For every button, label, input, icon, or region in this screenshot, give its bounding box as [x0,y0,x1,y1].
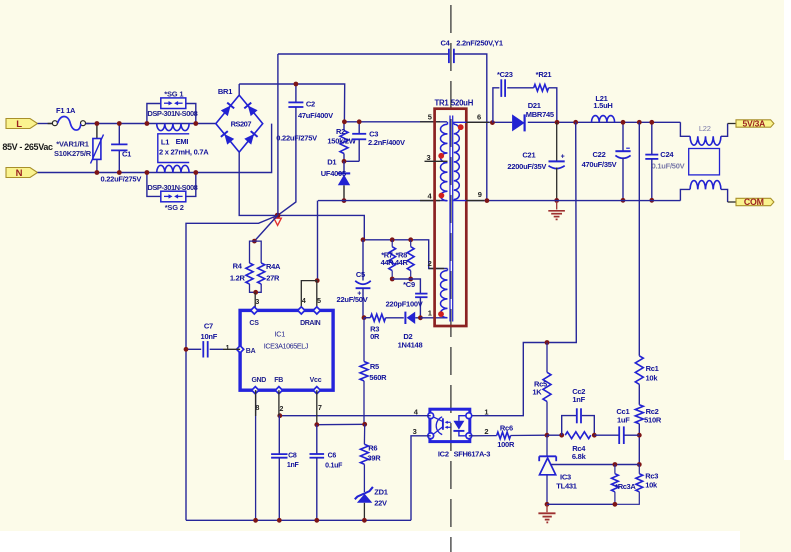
wire star diag to R4 [254,215,277,241]
svg-text:Rc3: Rc3 [645,471,658,480]
junction SG2 left [145,170,150,175]
bridge BR1 diamond [216,95,263,152]
svg-text:10nF: 10nF [201,332,218,341]
ground TL431 [538,504,555,522]
junction Rc2 Cc1 [637,433,642,438]
junction R2 top [342,119,347,124]
svg-text:*SG 2: *SG 2 [165,203,184,212]
fuse F1 [48,106,90,130]
wire N [38,124,272,173]
label BR1 [218,87,232,96]
svg-text:TL431: TL431 [556,481,577,490]
wire pin6 rail [466,121,680,123]
capacitor C4 [440,39,502,64]
svg-text:0.22uF/275V: 0.22uF/275V [276,134,317,143]
junction TL431 anode [545,502,550,507]
resistor Rc1 [635,356,658,385]
bridge diode D-a [221,103,234,116]
svg-text:*R21: *R21 [536,70,552,79]
transformer TR1 box [435,109,467,326]
svg-text:1: 1 [428,309,432,318]
svg-text:ICE3A1065ELJ: ICE3A1065ELJ [264,341,309,350]
wire rail y84 [239,84,345,122]
opto IC2 box [430,409,470,441]
wire pin1 stub [420,317,447,319]
svg-text:1K: 1K [532,388,542,397]
spark gap SG1 wiring [147,104,196,124]
svg-text:C7: C7 [204,321,213,330]
junction R2 bottom [342,159,347,164]
svg-text:IC1: IC1 [275,330,286,339]
IC2 pin circle [466,413,472,419]
transformer core [450,116,453,322]
wire Rc1-Rc2 [638,384,640,404]
resistor R6 [360,424,381,464]
svg-text:3: 3 [427,153,431,162]
junction Rc4 left [559,433,564,438]
IC2 pin circle [428,413,434,419]
capacitor C1 [100,124,141,184]
svg-text:*Rc3A: *Rc3A [615,482,636,491]
svg-text:C8: C8 [288,453,297,460]
svg-text:R2: R2 [336,127,345,136]
svg-text:+: + [561,153,565,160]
label L22 [699,124,711,133]
svg-text:FB: FB [274,377,283,384]
svg-text:C24: C24 [660,150,674,159]
junction Vcc [314,422,319,427]
svg-text:10k: 10k [645,481,658,490]
IC2 pin numbers [413,408,489,437]
svg-text:BR1: BR1 [218,87,232,96]
bridge diode D-c [221,131,234,144]
capacitor Cc2 [562,387,595,435]
wire C4 to pin9 rail [454,54,487,201]
wire gnd rail 504 [547,503,615,505]
svg-text:ZD1: ZD1 [374,487,387,496]
svg-text:C3: C3 [369,129,378,138]
svg-text:3: 3 [413,427,417,436]
svg-text:Rc1: Rc1 [646,364,659,373]
TR1 pin3 tap [425,160,448,162]
junction C5 bottom [362,315,367,320]
svg-text:GND: GND [252,377,267,384]
resistor Rc6 [497,424,547,450]
IC1 pin diamond [313,387,320,394]
svg-text:L1: L1 [161,137,169,146]
junction Rc4 right [592,433,597,438]
svg-text:6: 6 [477,113,481,122]
svg-text:COM: COM [744,197,764,207]
IC1 pin diamond [298,307,305,314]
FB pin stub [278,390,280,416]
terminal N [6,168,38,180]
resistor R4A [258,262,281,284]
svg-text:R4A: R4A [266,262,281,271]
svg-text:R6: R6 [368,443,377,452]
junction Rc2 Rc3 [637,462,642,467]
wire drain riser [317,201,319,281]
resistor R3 [364,314,386,341]
drain pin stubs [301,281,317,311]
svg-text:150k/2W: 150k/2W [327,137,356,146]
svg-text:3: 3 [255,299,259,306]
isolation boundary dashed line [450,5,452,552]
junction C22 top [621,120,626,125]
junction rail ZD1 [362,518,367,523]
label 85V - 265Vac [2,142,53,152]
wire L terminal to fuse [38,123,53,125]
spark gap SG2 [147,183,197,212]
terminal 5V/3A [736,118,774,128]
junction D2 C9 [418,315,423,320]
IC1 pin diamond [251,307,258,314]
resistor R8 [395,240,414,279]
svg-text:85V - 265Vac: 85V - 265Vac [2,142,53,152]
svg-text:5: 5 [428,113,432,122]
TR1 polarity dot pin4 [439,193,445,199]
zener ZD1 [355,464,388,520]
IC1 pin diamond [275,387,282,394]
junction R6 top [362,422,367,427]
CS pin stub [254,292,256,310]
choke L1 label box [158,134,209,163]
junction R8 bottom [408,277,413,282]
svg-text:SFH617A-3: SFH617A-3 [454,450,491,459]
capacitor C22 [582,122,631,200]
resistor Rc4 [565,432,591,461]
svg-text:1nF: 1nF [287,462,300,469]
svg-text:DRAIN: DRAIN [300,320,321,327]
junction rail C6 [314,518,319,523]
IC1 pin diamond [313,307,320,314]
diode D2 [386,312,423,350]
junction C7 left [184,347,189,352]
wire to L22 bottom [680,189,690,200]
svg-text:R4: R4 [233,261,243,270]
opto IC2 transistor [432,416,443,435]
TR1 primary winding [441,122,448,201]
resistor Rc3A [612,465,637,505]
Vcc pin stub [316,390,318,425]
IC1 pin diamond [237,346,244,353]
svg-text:1N4148: 1N4148 [398,341,423,350]
junction D1 anode [342,198,347,203]
junction C22 bottom [621,198,626,203]
TR1 polarity dot pin3 [438,153,444,159]
resistor Rc5 [532,343,551,436]
svg-text:0.1uF/50V: 0.1uF/50V [652,162,685,171]
svg-text:1nF: 1nF [572,395,585,404]
svg-text:2: 2 [280,406,284,413]
svg-text:DSP-301N-S008: DSP-301N-S008 [147,183,197,192]
svg-text:CS: CS [249,320,259,327]
capacitor C3 [352,122,405,162]
junction Rc5 riser top [573,120,578,125]
svg-text:2.2nF/250V,Y1: 2.2nF/250V,Y1 [456,39,503,48]
junction C24 bottom [649,198,654,203]
wire Rc1 riser [638,122,640,355]
svg-text:47uF/400V: 47uF/400V [298,111,333,120]
wire aux rail y239.8 [363,240,448,269]
resistor Rc3 [615,465,658,505]
spark gap SG2 wiring [147,173,196,197]
svg-text:C2: C2 [306,100,315,109]
op-amp IC1 box [240,310,333,390]
svg-text:100R: 100R [497,440,515,449]
svg-text:22uF/50V: 22uF/50V [337,295,368,304]
junction C5 top [361,237,366,242]
svg-text:560R: 560R [369,373,387,382]
junction R7 top [390,237,395,242]
IC1 pin diamond [252,387,259,394]
svg-text:C22: C22 [592,150,605,159]
choke L1 top winding [157,124,189,131]
IC1 labels [246,320,322,384]
svg-text:510R: 510R [644,415,662,424]
svg-text:F1 1A: F1 1A [56,106,76,115]
svg-text:L22: L22 [699,124,711,133]
wire Rc2 down [638,424,640,465]
svg-text:C1: C1 [122,149,131,158]
wire opto pin3 to rail [411,436,431,521]
capacitor C5 [337,240,371,318]
resistor R5 [360,318,387,425]
junction D21 cathode [555,120,560,125]
resistor R4 and R4A frame [250,241,262,292]
svg-text:4: 4 [302,298,306,305]
svg-text:R5: R5 [370,362,379,371]
svg-text:D2: D2 [403,332,412,341]
svg-text:0R: 0R [370,332,380,341]
svg-text:1uF: 1uF [617,415,630,424]
svg-text:7: 7 [318,405,322,412]
svg-text:D21: D21 [528,101,541,110]
junction C21 bottom [554,198,559,203]
wire x278 riser to star [277,54,279,215]
wire left vertical x186 [186,215,278,520]
svg-text:2200uF/35V: 2200uF/35V [507,162,546,171]
wire to L22 top [680,122,690,136]
wire R7R8 bottom to C9 [392,279,420,294]
choke L22 core [689,149,720,175]
capacitor C7 [186,321,240,357]
junction C2 top [294,82,299,87]
resistor Rc2 [635,405,662,425]
svg-text:C21: C21 [522,151,535,160]
junction C3 top [357,119,362,124]
TR1 polarity dot pin1 [438,311,444,317]
capacitor C24 [645,122,684,200]
svg-text:470uF/35V: 470uF/35V [582,160,617,169]
resistor R2 [327,122,356,162]
junction R7 bottom [390,277,395,282]
svg-text:5: 5 [317,298,321,305]
svg-text:1.2R: 1.2R [230,274,246,283]
wire bottom rail [186,519,411,521]
svg-text:0.22uF/275V: 0.22uF/275V [100,175,141,184]
bridge diode D-b [244,103,257,116]
IC2 labels [438,450,490,459]
varistor VAR1/R1 [54,124,103,173]
svg-text:9: 9 [478,190,482,199]
label RS207 [231,120,252,129]
inductor L21 [592,94,615,122]
IC2 pin circle [466,433,472,439]
junction SG2 right [193,170,198,175]
wire bridge bottom riser [239,152,277,215]
resistor R7 [381,240,396,279]
junction node B [545,340,550,345]
transformer TR1 label [435,99,474,108]
junction drain pins [315,278,320,283]
TR1 aux winding [441,269,448,318]
shunt reg IC3 TL431 [539,435,577,504]
star node [275,213,281,219]
wire drain rail y200.6 [318,200,447,202]
junction Rc3A top [613,462,618,467]
svg-text:1: 1 [484,408,488,417]
svg-text:BA: BA [246,348,256,355]
svg-text:*VAR1/R1: *VAR1/R1 [56,140,88,149]
IC2 pin circle [428,433,434,439]
svg-text:*SG 1: *SG 1 [164,90,183,99]
wire FB to opto pin4 [280,415,431,417]
capacitor C9 [386,280,428,318]
svg-text:L: L [16,119,22,130]
ground secondary [548,200,565,219]
wire star to x364 riser [278,215,365,239]
junction rail GND [253,518,258,523]
snubber C23 R21 [493,70,557,123]
IC1 pin numbers [226,298,322,413]
terminal COM [736,197,774,207]
svg-text:6.8k: 6.8k [572,452,587,461]
svg-text:2: 2 [428,259,432,268]
wire R2 C3 bottom [344,160,359,162]
svg-text:C6: C6 [328,453,337,460]
svg-text:TR1: TR1 [435,99,450,108]
junction node A [545,433,550,438]
svg-text:5V/3A: 5V/3A [742,118,765,128]
choke L1 bottom winding [157,165,189,172]
svg-text:*C9: *C9 [403,280,415,289]
svg-text:C4: C4 [440,39,450,48]
diode D21 [512,101,554,131]
TR1 pin numbers [427,113,482,318]
wire rc5 riser [469,122,577,415]
capacitor Cc1 [594,407,639,444]
svg-text:*C23: *C23 [497,70,513,79]
diode D1 [321,158,350,201]
junction snubber leg [490,120,495,125]
junction R4 bottom [253,290,258,295]
svg-text:10k: 10k [646,373,659,382]
wire fuse to bridge [86,123,216,125]
wire L22 bottom out [721,189,736,202]
svg-text:S10K275/R: S10K275/R [54,149,92,158]
wire L22 top out [721,124,736,137]
choke L22 top [690,136,721,145]
svg-text:39R: 39R [367,454,381,463]
wire bridge top riser [238,84,240,95]
capacitor C8 [271,416,299,521]
svg-text:44R: 44R [381,258,395,267]
svg-text:RS207: RS207 [231,120,252,129]
junction C1 bottom [117,170,122,175]
junction C24 top [649,120,654,125]
svg-text:1.5uH: 1.5uH [593,101,612,110]
wire TL431 ref [551,464,639,466]
capacitor C2 [276,84,333,215]
svg-text:UF4005: UF4005 [321,169,346,178]
svg-text:N: N [16,168,23,179]
bridge diode D-d [244,131,257,144]
spark gap SG1 [147,90,197,118]
resistor R4 [230,261,253,284]
terminal L [6,119,38,131]
junction C1 top [117,121,122,126]
choke L22 bottom [690,181,721,190]
star marker triangle [274,218,281,225]
junction C4 pin9 [485,198,490,203]
junction rail C8 [277,518,282,523]
wire top rail y54 [278,53,449,55]
wire pin5 rail [344,121,447,123]
TR1 secondary winding [454,122,467,200]
wire Vcc node [317,423,365,425]
junction SG1 left [145,121,150,126]
svg-text:220pF100V: 220pF100V [386,299,423,308]
capacitor C6 [310,425,344,521]
wire nodeA right [547,434,562,436]
capacitor C21 [507,122,564,200]
svg-text:Rc6: Rc6 [500,424,513,433]
junction R8 top [408,237,413,242]
junction FB [277,413,282,418]
junction varistor top [95,121,100,126]
svg-text:IC3: IC3 [560,472,571,481]
wire opto pin2 [469,435,497,437]
junction SG1 right [193,121,198,126]
svg-text:D1: D1 [327,158,336,167]
svg-text:DSP-301N-S008: DSP-301N-S008 [147,109,197,118]
svg-text:44R: 44R [395,258,409,267]
wire pin9 rail [466,200,680,202]
svg-text:2.2nF/400V: 2.2nF/400V [368,138,405,147]
svg-text:C5: C5 [356,270,365,279]
svg-text:2 x 27mH, 0.7A: 2 x 27mH, 0.7A [159,148,209,157]
junction R4 top [252,239,257,244]
svg-text:0.1uF: 0.1uF [325,462,343,469]
svg-text:EMI: EMI [176,137,189,146]
GND pin stub [255,390,257,520]
TR1 polarity dot pin6 [458,124,464,130]
svg-text:22V: 22V [374,499,387,508]
svg-text:IC2: IC2 [438,450,449,459]
junction Rc1 riser top [637,120,642,125]
svg-text:27R: 27R [266,274,280,283]
svg-text:MBR745: MBR745 [526,110,554,119]
svg-text:2: 2 [484,427,488,436]
opto IC2 led [445,416,466,436]
junction Rc3A bottom [613,502,618,507]
svg-text:520uH: 520uH [451,99,474,108]
svg-text:Vcc: Vcc [310,377,322,384]
junction varistor bottom [95,170,100,175]
